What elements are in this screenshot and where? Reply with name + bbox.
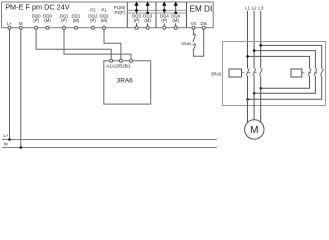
label DQ3(P) (131, 14, 142, 24)
contact right pole 1 (308, 69, 311, 76)
contact left pole 3 (259, 69, 262, 76)
contact 3RA6 aux 2 (193, 44, 196, 52)
terminal B1 (130, 59, 133, 62)
wire VS to contact (193, 28, 195, 35)
terminal A1 (110, 59, 113, 62)
svg-text:P2(P): P2(P) (115, 10, 126, 15)
contact left pole 1 (246, 69, 249, 76)
junction return to L2 (253, 92, 256, 95)
operator box left starter (229, 69, 242, 77)
junction DQ4(P) on P1(M) rail (163, 9, 166, 12)
contact right pole 3 (320, 69, 323, 76)
terminal VS (192, 26, 195, 29)
wire L+ down to rail (9, 28, 11, 140)
svg-text:L+: L+ (7, 21, 12, 26)
contactor 3RA6 box (104, 61, 151, 104)
svg-text:M: M (19, 21, 23, 26)
svg-text:(P): (P) (61, 18, 67, 23)
terminal L+ (8, 26, 11, 29)
svg-text:DIx: DIx (200, 21, 207, 26)
svg-text:(M): (M) (144, 18, 151, 23)
junction M rail (20, 146, 23, 149)
terminal DQ1(M) (75, 26, 78, 29)
junction DQ3(M) on P2(P) rail (146, 12, 149, 15)
terminal A2/B2 (119, 59, 122, 62)
svg-text:(P): (P) (90, 18, 96, 23)
junction L1 tap (246, 55, 249, 58)
terminal DQ3(M) (146, 26, 149, 29)
wire L2 to motor (253, 76, 255, 120)
svg-text:(P): (P) (161, 18, 167, 23)
terminal DQ4(M) (174, 26, 177, 29)
svg-text:3RA6: 3RA6 (117, 78, 133, 85)
rail P1(M) (127, 9, 186, 11)
terminal DQ4(P) (163, 26, 166, 29)
svg-text:PM-E F pm DC 24V: PM-E F pm DC 24V (5, 3, 70, 12)
motor M1 (245, 120, 264, 139)
wire L2 tap to right starter (254, 51, 315, 69)
wire DQ4(P) arrow up (162, 2, 166, 27)
wire L1 to motor (247, 76, 249, 123)
junction return to L3 (259, 87, 262, 90)
svg-text:L+: L+ (4, 133, 9, 138)
wire L2 (253, 11, 255, 69)
terminal DQ2(P) (91, 26, 94, 29)
rail P2(P) (127, 12, 186, 14)
module PM-E / EM DI outline (2, 2, 214, 28)
svg-text:L1: L1 (245, 5, 250, 10)
wire L3 tap to right starter (261, 45, 322, 68)
junction return to L1 (246, 98, 249, 101)
divider EM DI left edge (186, 2, 188, 28)
label DQ4(M) (170, 14, 181, 24)
rail M bottom (2, 147, 217, 149)
wire L3 to motor (260, 76, 262, 123)
terminal DQ1(P) (63, 26, 66, 29)
contact left pole 2 (253, 69, 256, 76)
divider left of DQ3 sub-box (126, 2, 128, 28)
terminal DQ3(P) (135, 26, 138, 29)
svg-text:3RA6: 3RA6 (211, 72, 222, 77)
wire L3 (260, 11, 262, 69)
wire DQ3(M) arrow up (146, 2, 150, 27)
rail L+ bottom (2, 139, 217, 141)
terminal DQ2(M) (103, 26, 106, 29)
wire L1 (247, 11, 249, 69)
svg-text:P2: P2 (90, 8, 96, 13)
linkage left starter (242, 72, 260, 74)
junction DQ4(M) on P2(P) rail (174, 12, 177, 15)
svg-text:P1: P1 (101, 8, 107, 13)
divider between DQ3 and DQ4 sub-boxes (155, 2, 157, 28)
operator box right starter (291, 69, 302, 77)
wire right pole 3 return (248, 76, 322, 100)
svg-text:(M): (M) (73, 18, 80, 23)
terminal DIx (202, 26, 205, 29)
svg-text:EM DI: EM DI (190, 5, 213, 14)
wire right pole 2 return (254, 76, 315, 94)
wire DQ3(P) arrow up (134, 2, 138, 27)
wire contact to DIx (194, 28, 204, 57)
terminal DQ0(M) (46, 26, 49, 29)
svg-text:(M): (M) (172, 18, 179, 23)
terminal M (19, 26, 22, 29)
junction L+ rail (8, 138, 11, 141)
svg-text:(P): (P) (33, 18, 39, 23)
linkage right starter (302, 72, 321, 74)
wire M down to rail (20, 28, 22, 148)
wire DQ0(P) to 3RA6 A1 (36, 28, 111, 60)
svg-text:M: M (4, 142, 8, 147)
junction L3 tap (259, 44, 262, 47)
wire L1 tap to right starter (248, 56, 310, 68)
svg-text:L3: L3 (258, 5, 263, 10)
wire DQ2(M) to 3RA6 A2/B2 (104, 28, 121, 60)
label DQ3(M) (142, 14, 153, 24)
contact right pole 2 (314, 69, 317, 76)
terminal DQ0(P) (35, 26, 38, 29)
svg-text:VS: VS (191, 21, 197, 26)
starter assembly box (223, 42, 326, 106)
contact 3RA6 aux 1 (193, 34, 196, 42)
wire right pole 1 return (261, 76, 310, 89)
svg-text:(M): (M) (101, 18, 108, 23)
junction L2 tap (253, 49, 256, 52)
svg-text:(M): (M) (44, 18, 51, 23)
svg-text:L2: L2 (252, 5, 257, 10)
svg-text:(P): (P) (134, 18, 140, 23)
wire DQ4(M) arrow up (174, 2, 178, 27)
svg-text:A1A2/B2B1: A1A2/B2B1 (106, 63, 131, 68)
svg-text:M: M (250, 125, 258, 136)
svg-text:3RA6: 3RA6 (181, 41, 192, 46)
junction DQ3(P) on P1(M) rail (135, 9, 138, 12)
label DQ4(P) (159, 14, 170, 24)
wire DQ1(P) to 3RA6 B1 (64, 28, 131, 60)
